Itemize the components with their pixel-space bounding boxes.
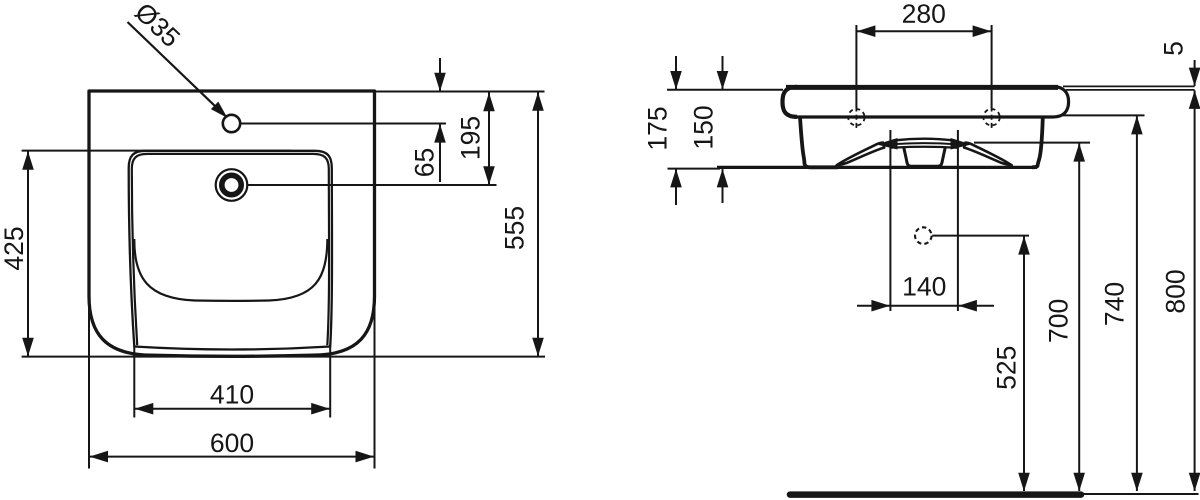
svg-text:700: 700 — [1043, 299, 1073, 343]
svg-text:175: 175 — [643, 106, 673, 150]
svg-text:410: 410 — [210, 379, 254, 409]
svg-text:280: 280 — [902, 0, 946, 29]
svg-text:425: 425 — [0, 226, 29, 270]
svg-text:525: 525 — [991, 346, 1021, 390]
svg-text:800: 800 — [1160, 269, 1190, 313]
svg-text:600: 600 — [210, 428, 254, 458]
svg-text:5: 5 — [1158, 41, 1188, 56]
svg-text:195: 195 — [456, 116, 486, 160]
svg-text:140: 140 — [902, 271, 946, 301]
svg-text:65: 65 — [410, 148, 440, 177]
svg-text:740: 740 — [1100, 282, 1130, 326]
svg-text:555: 555 — [500, 206, 530, 250]
svg-text:150: 150 — [689, 105, 719, 149]
